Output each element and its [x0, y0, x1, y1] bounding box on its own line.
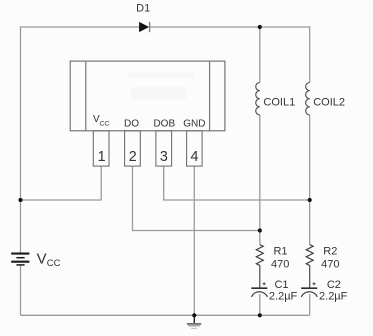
svg-text:2.2µF: 2.2µF — [319, 290, 348, 302]
svg-text:CC: CC — [100, 120, 110, 127]
resistor R1 bottom lead — [259, 266, 261, 289]
node: junction dot top wire / COIL1 rail — [258, 25, 262, 29]
svg-text:CC: CC — [47, 258, 61, 269]
battery VCC — [11, 254, 29, 265]
IC U1 package body — [70, 61, 225, 131]
wire COIL2 rail top segment — [309, 26, 311, 82]
resistor R2 — [306, 245, 313, 266]
svg-text:COIL1: COIL1 — [263, 96, 295, 108]
IC pad label VCC — [93, 114, 110, 127]
svg-text:2.2µF: 2.2µF — [269, 290, 298, 302]
pin 4 box — [187, 131, 203, 166]
wire COIL1 rail top segment — [259, 27, 261, 83]
svg-text:470: 470 — [321, 259, 339, 271]
svg-text:2: 2 — [129, 149, 137, 165]
wire pin4 to bottom rail — [193, 166, 195, 315]
resistor R1 — [256, 245, 263, 266]
svg-text:R2: R2 — [323, 246, 337, 258]
wire pin2 to COIL1 rail — [133, 166, 260, 231]
wire pin3 to COIL2 rail — [164, 166, 310, 200]
wire top-left from left rail to diode anode — [21, 26, 140, 28]
wire left rail upper (top corner down to battery top) — [20, 26, 22, 253]
wire COIL1 rail lower segment (C1 arc to bottom rail) — [259, 294, 261, 315]
faint ghost marks inside IC body — [128, 72, 194, 101]
label VCC (battery) — [37, 251, 61, 270]
svg-text:D1: D1 — [136, 2, 150, 14]
svg-text:C1: C1 — [274, 279, 288, 291]
node: junction dot bottom rail / C1 — [258, 313, 262, 317]
wire pin1 to left rail — [21, 166, 102, 200]
pin 1 box — [93, 131, 109, 166]
svg-text:GND: GND — [183, 118, 205, 129]
pin 2 box — [125, 131, 141, 166]
capacitor C1 (polarized) — [251, 288, 267, 297]
capacitor C2 (polarized) — [301, 288, 317, 297]
node: junction dot COIL1 rail / pin2 — [258, 228, 262, 232]
ground — [187, 315, 201, 328]
C2 plus sign — [313, 282, 316, 285]
svg-text:4: 4 — [191, 149, 199, 165]
svg-text:COIL2: COIL2 — [313, 96, 345, 108]
svg-text:DO: DO — [124, 118, 139, 129]
svg-text:3: 3 — [160, 149, 168, 165]
svg-text:R1: R1 — [273, 246, 287, 258]
svg-text:470: 470 — [271, 259, 289, 271]
wire COIL1 rail middle segment (coil bottom to R1 top) — [259, 115, 261, 245]
svg-text:DOB: DOB — [153, 118, 175, 129]
svg-text:1: 1 — [98, 149, 106, 165]
wire top-right from diode cathode to COIL2 rail — [150, 26, 310, 28]
pin 3 box — [156, 131, 172, 166]
node: junction dot bottom rail / pin4 ground — [192, 313, 196, 317]
resistor R2 bottom lead — [309, 266, 311, 289]
svg-text:C2: C2 — [327, 279, 341, 291]
wire left rail lower (battery bottom to bottom rail) — [20, 266, 22, 316]
node: junction dot left rail / pin1 — [18, 198, 22, 202]
inductor COIL2 — [306, 83, 310, 115]
inductor COIL1 — [256, 83, 260, 115]
wire COIL2 rail middle segment (coil bottom to R2 top) — [309, 115, 311, 245]
node: junction dot COIL2 rail / pin3 — [308, 198, 312, 202]
svg-text:V: V — [37, 251, 47, 268]
diode D1 — [139, 22, 150, 32]
C1 plus sign — [263, 282, 266, 285]
wire bottom rail — [21, 314, 310, 316]
wire COIL2 rail lower segment (C2 arc to bottom rail) — [309, 294, 311, 315]
